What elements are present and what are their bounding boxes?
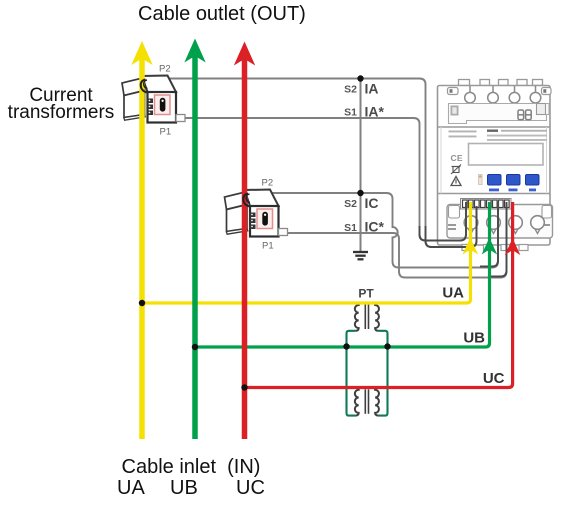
svg-text:PT: PT [358,287,374,301]
svg-text:UC: UC [483,370,505,387]
svg-text:UA: UA [442,285,464,302]
svg-text:S2: S2 [344,84,357,96]
svg-text:S2: S2 [344,198,357,210]
svg-text:IA*: IA* [365,104,385,120]
svg-text:S1: S1 [344,107,357,119]
svg-text:IC*: IC* [365,219,385,235]
svg-text:UB: UB [463,330,485,347]
svg-text:IA: IA [365,81,379,97]
svg-text:S1: S1 [344,222,357,234]
svg-text:IC: IC [365,195,379,211]
svg-text:CE: CE [451,153,463,163]
